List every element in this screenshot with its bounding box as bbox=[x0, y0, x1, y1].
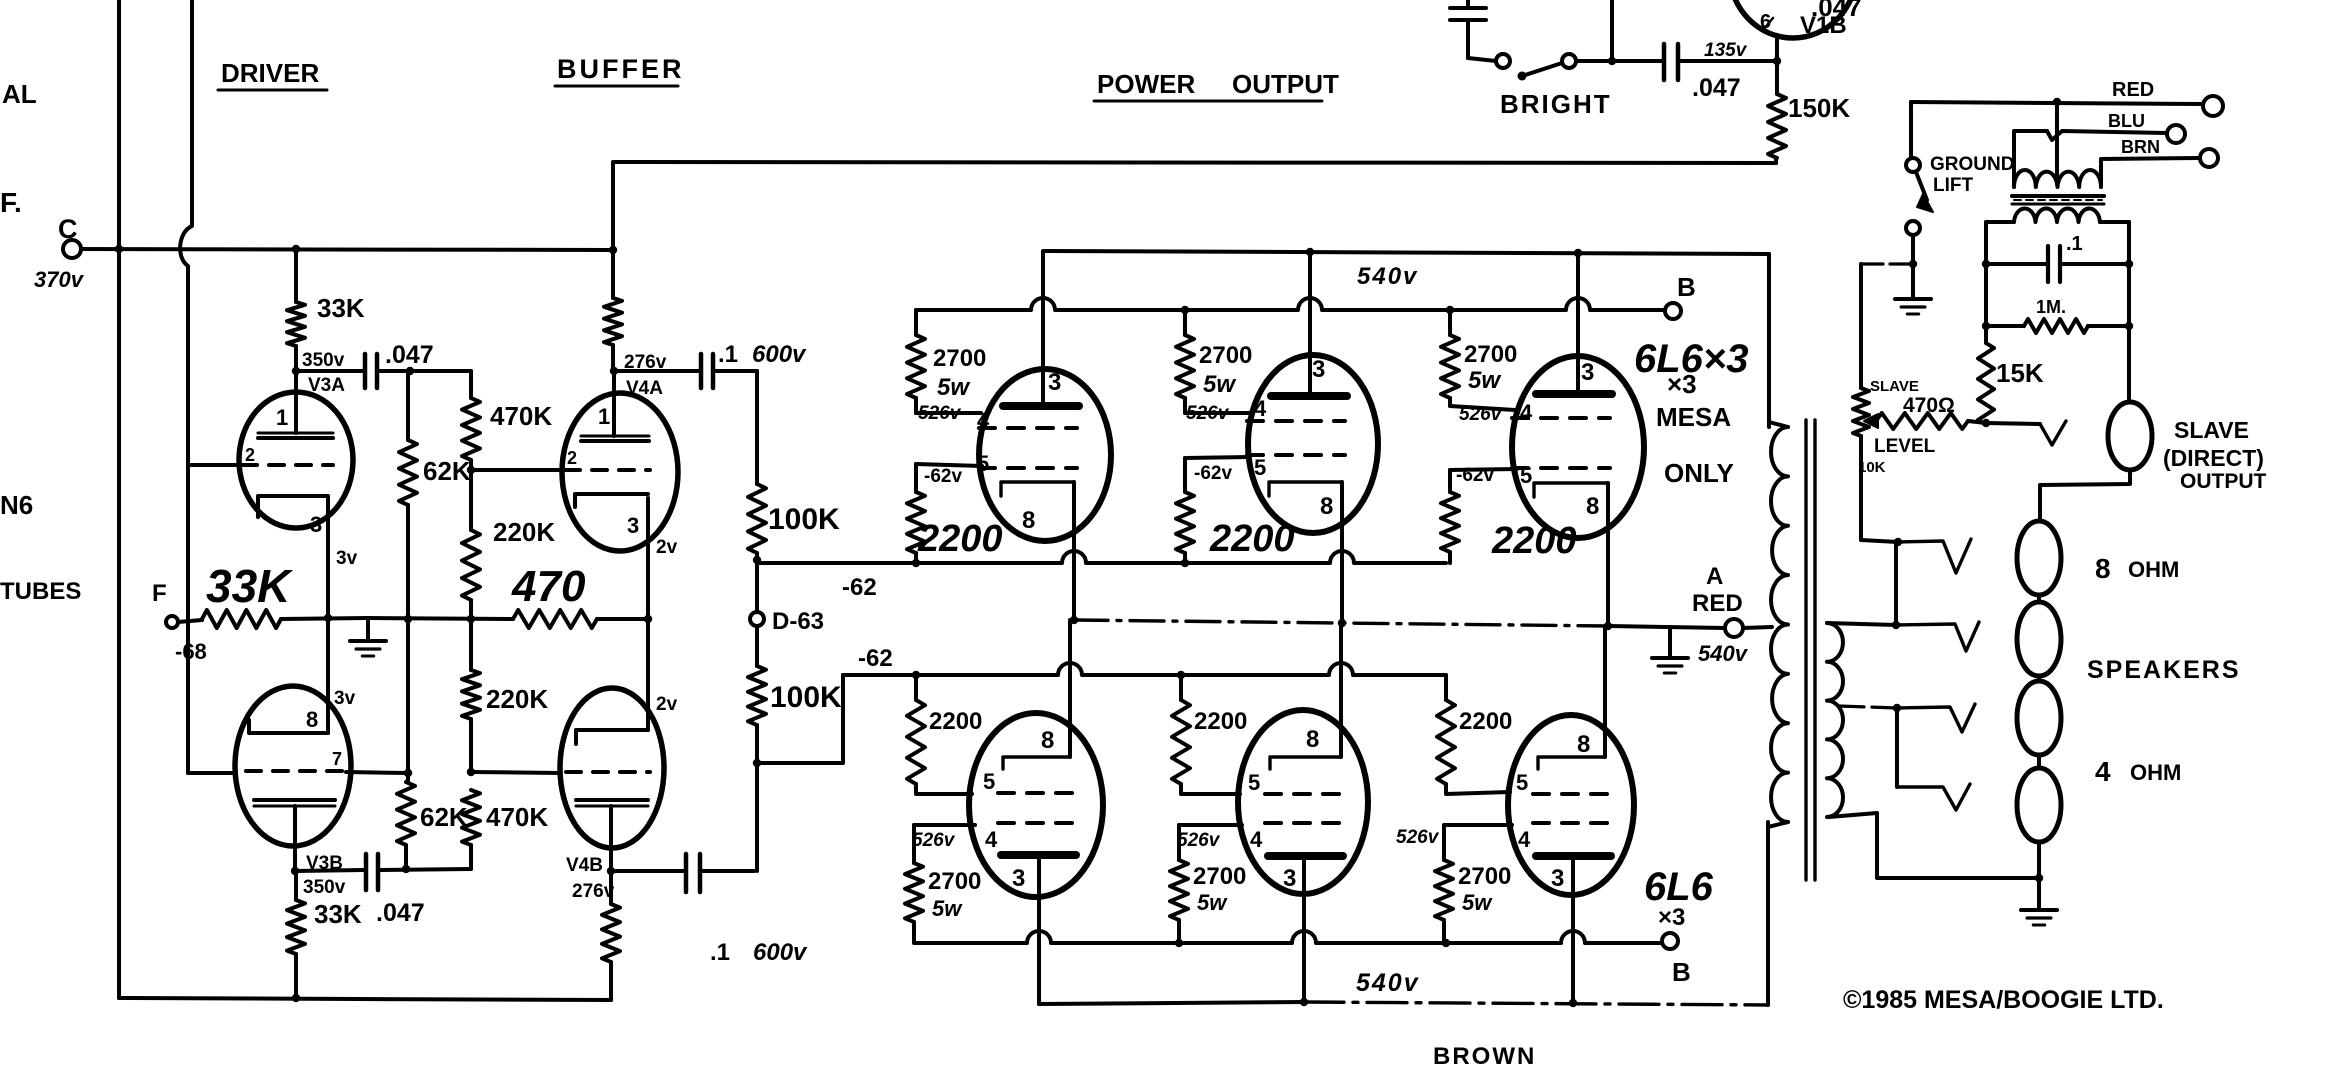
wire -62 rail upper bbox=[757, 551, 1446, 563]
svg-text:2v: 2v bbox=[656, 694, 678, 715]
resistor 2200 bot no3 bbox=[1444, 675, 1448, 700]
resistor 470 slave level bbox=[1876, 413, 1968, 429]
svg-text:B: B bbox=[1672, 957, 1691, 987]
svg-text:540v: 540v bbox=[1356, 969, 1420, 997]
wire secondary 4ohm tap bbox=[1838, 706, 1897, 708]
svg-text:C: C bbox=[58, 214, 78, 244]
pot 10K body bbox=[1853, 388, 1869, 436]
wire V3B grid to column bbox=[346, 772, 408, 773]
wire 370v rail bbox=[81, 249, 613, 250]
svg-text:.047: .047 bbox=[385, 341, 434, 369]
svg-text:BRN: BRN bbox=[2121, 137, 2160, 157]
resistor 2200 bot no1 bbox=[914, 675, 918, 700]
svg-text:BRIGHT: BRIGHT bbox=[1500, 89, 1612, 119]
junction dot bottom rail bbox=[1300, 998, 1308, 1006]
svg-text:F.: F. bbox=[0, 187, 22, 218]
wire top rail y162 bbox=[615, 162, 1776, 163]
svg-text:.1: .1 bbox=[718, 341, 738, 368]
jack bushing ellipse 3 bbox=[2017, 681, 2061, 755]
svg-text:5w: 5w bbox=[1462, 890, 1493, 915]
resistor 100K upper bbox=[748, 484, 766, 553]
junction dots 370v rail bbox=[115, 245, 123, 253]
wire jack chain upper bbox=[1894, 542, 1898, 625]
svg-text:2700: 2700 bbox=[1464, 341, 1517, 368]
resistor 2700 bot no2 bbox=[1170, 860, 1188, 920]
wire 100K column to V4B cap bbox=[755, 763, 759, 871]
OT secondary winding bbox=[1827, 623, 1843, 817]
svg-text:10K: 10K bbox=[1858, 459, 1886, 476]
svg-text:.1: .1 bbox=[710, 939, 730, 966]
jack tip V3 bbox=[1897, 704, 1975, 732]
svg-text:526v: 526v bbox=[1459, 404, 1503, 425]
svg-text:5w: 5w bbox=[1197, 890, 1228, 915]
capacitor .047 driver out bbox=[363, 354, 368, 388]
resistor 2200 top no3 bbox=[1448, 470, 1452, 492]
wire filter left vertical bbox=[1984, 222, 1988, 343]
svg-text:4: 4 bbox=[977, 408, 990, 433]
wire 540v top rail bbox=[1045, 251, 1769, 427]
wire V3B grid stub bbox=[188, 771, 236, 775]
ground lift switch bbox=[1906, 158, 1920, 172]
jack bushing ellipse 4 bbox=[2017, 768, 2061, 842]
wire BLU with hop bbox=[2047, 131, 2167, 140]
resistor 470K upper bbox=[410, 371, 471, 398]
jack tip slave bbox=[1986, 421, 2066, 445]
wire V4A plate drop bbox=[611, 162, 615, 251]
resistor 150K bbox=[1775, 61, 1779, 94]
resistor 2700 bot no1 bbox=[905, 863, 923, 922]
svg-text:5w: 5w bbox=[1468, 367, 1501, 394]
svg-text:3: 3 bbox=[1048, 369, 1061, 396]
wire plate drop tube2 bbox=[1308, 252, 1312, 392]
wire RED rail bbox=[1911, 102, 2202, 104]
wire pot bottom out bbox=[1861, 540, 1898, 542]
svg-text:540v: 540v bbox=[1698, 641, 1749, 666]
wire ground lift to gnd bbox=[1911, 235, 1915, 297]
resistor V4A plate bbox=[611, 251, 615, 298]
svg-text:5: 5 bbox=[1254, 455, 1266, 480]
OT primary top lead bbox=[1767, 254, 1771, 422]
jack tip V2 bbox=[1896, 622, 1979, 651]
slave jack bushing bbox=[2108, 402, 2152, 470]
svg-text:LIFT: LIFT bbox=[1933, 175, 1973, 196]
wire cathode drop tube1 bbox=[1072, 482, 1076, 620]
svg-text:3v: 3v bbox=[336, 548, 358, 569]
svg-text:3v: 3v bbox=[334, 688, 356, 709]
svg-text:(DIRECT): (DIRECT) bbox=[2163, 445, 2264, 471]
svg-text:100K: 100K bbox=[770, 681, 842, 714]
svg-text:526v: 526v bbox=[1186, 403, 1230, 424]
svg-text:470K: 470K bbox=[490, 401, 552, 431]
junction dot bottom wire bbox=[292, 994, 300, 1002]
jack tip V4 bbox=[1897, 784, 1970, 810]
svg-text:BLU: BLU bbox=[2108, 111, 2145, 131]
svg-text:4: 4 bbox=[985, 827, 998, 852]
tube V3B bbox=[235, 686, 351, 846]
svg-text:2200: 2200 bbox=[1459, 708, 1512, 735]
svg-text:350v: 350v bbox=[303, 877, 346, 898]
svg-text:-68: -68 bbox=[175, 639, 207, 664]
wire grid feed tube3 bbox=[1450, 469, 1517, 470]
svg-text:526v: 526v bbox=[1396, 827, 1440, 848]
svg-text:33K: 33K bbox=[317, 293, 365, 323]
svg-text:2v: 2v bbox=[656, 537, 678, 558]
svg-text:B: B bbox=[1677, 272, 1696, 302]
node B terminal top bbox=[1665, 303, 1681, 319]
svg-text:6L6: 6L6 bbox=[1644, 865, 1714, 909]
svg-text:.047: .047 bbox=[376, 899, 425, 927]
svg-text:-62: -62 bbox=[842, 574, 877, 601]
junction dot V4B plate node bbox=[607, 867, 615, 875]
svg-text:4: 4 bbox=[1520, 400, 1533, 425]
tube V1B partial bbox=[1729, 0, 1857, 38]
wire jack links bbox=[2037, 595, 2041, 602]
svg-text:5: 5 bbox=[1520, 463, 1532, 488]
wire center rail solid bbox=[1609, 626, 1725, 628]
V3A plate bar bbox=[258, 436, 333, 440]
svg-text:RED: RED bbox=[1692, 590, 1743, 617]
svg-text:2200: 2200 bbox=[1194, 708, 1247, 735]
V4A cathode bracket bbox=[575, 494, 648, 507]
capacitor .1 600v upper bbox=[614, 369, 699, 373]
svg-text:OUTPUT: OUTPUT bbox=[2180, 470, 2267, 493]
LT primary winding bbox=[2014, 170, 2101, 187]
wire lift branch to pot bbox=[1861, 262, 1913, 265]
tube 6L6 top no1 bbox=[979, 369, 1111, 541]
resistor 33K driver plate bbox=[294, 249, 298, 302]
svg-text:135v: 135v bbox=[1704, 40, 1748, 61]
svg-text:©1985 MESA/BOOGIE LTD.: ©1985 MESA/BOOGIE LTD. bbox=[1843, 986, 2164, 1014]
svg-text:2700: 2700 bbox=[1199, 342, 1252, 369]
V4A grid dashes bbox=[565, 468, 650, 472]
svg-text:4: 4 bbox=[1250, 827, 1263, 852]
svg-text:540v: 540v bbox=[1357, 263, 1418, 290]
svg-text:2: 2 bbox=[245, 445, 255, 465]
svg-text:SPEAKERS: SPEAKERS bbox=[2087, 656, 2241, 684]
junction dot -62 upper bbox=[753, 556, 761, 564]
svg-text:2700: 2700 bbox=[1458, 863, 1511, 890]
wire jack chain lower bbox=[1895, 708, 1899, 787]
V3B grid dashes bbox=[246, 769, 346, 773]
svg-text:TUBES: TUBES bbox=[0, 578, 81, 605]
tube V4B bbox=[560, 688, 664, 848]
wire filter right vertical bbox=[2127, 222, 2131, 402]
capacitor .1 filter bbox=[1986, 262, 2046, 266]
svg-text:5: 5 bbox=[1516, 770, 1528, 795]
capacitor .047 lower bbox=[295, 870, 364, 871]
tube 6L6 top no2 bbox=[1248, 355, 1378, 533]
LT primary right lead bbox=[2101, 158, 2200, 187]
resistor 1M filter bbox=[1986, 324, 2024, 328]
OT primary winding bbox=[1771, 427, 1788, 822]
svg-text:1: 1 bbox=[598, 404, 610, 429]
wire V1B plate lead bbox=[1775, 35, 1779, 61]
tube 6L6 top no3 bbox=[1512, 356, 1644, 538]
wire pot top lead bbox=[1859, 264, 1863, 388]
wire second vertical with hop over 370v rail bbox=[180, 0, 192, 773]
svg-text:F: F bbox=[152, 580, 167, 607]
resistor 2700 bot no3 bbox=[1435, 860, 1453, 920]
svg-text:5w: 5w bbox=[1203, 371, 1236, 398]
wire screen rail bottom bbox=[914, 931, 1661, 943]
svg-text:-62v: -62v bbox=[1194, 463, 1232, 484]
svg-text:3: 3 bbox=[627, 513, 639, 538]
wire V4B grid feed bbox=[471, 772, 560, 773]
OT core bbox=[1804, 420, 1807, 880]
resistor 33K feedback bbox=[178, 620, 202, 622]
svg-text:8: 8 bbox=[306, 707, 318, 732]
wire secondary top out bbox=[1827, 623, 1896, 625]
resistor 15K bbox=[1978, 343, 1994, 425]
wire jack top feed bbox=[2040, 471, 2130, 521]
svg-text:2700: 2700 bbox=[933, 345, 986, 372]
wire ground rail bbox=[368, 618, 513, 619]
svg-text:8: 8 bbox=[1320, 493, 1333, 520]
resistor 100K lower bbox=[755, 626, 759, 666]
svg-text:3: 3 bbox=[1312, 356, 1325, 383]
node BLU terminal bbox=[2167, 125, 2185, 143]
wire wiper to slave jack bbox=[1986, 423, 2040, 424]
wire left border vertical bbox=[117, 0, 121, 998]
V3A cathode bracket bbox=[258, 496, 328, 517]
LT center tap bbox=[2055, 102, 2059, 184]
ground symbol center bbox=[1652, 656, 1688, 660]
svg-text:×3: ×3 bbox=[1667, 369, 1697, 399]
wire 100K column top bbox=[715, 371, 757, 484]
tube 6L6 bot no1 bbox=[969, 713, 1103, 897]
wire 540v bottom dashdot bbox=[1304, 1002, 1768, 1005]
resistor 2200 top no2 bbox=[1183, 458, 1187, 492]
svg-text:BROWN: BROWN bbox=[1433, 1043, 1536, 1070]
junction dot 150K top bbox=[1773, 57, 1781, 65]
wire V4 cathode vertical bbox=[646, 498, 650, 730]
wire cathode drop tube3 bbox=[1606, 483, 1610, 626]
V3B cathode bracket bbox=[249, 720, 328, 733]
svg-text:8: 8 bbox=[1586, 493, 1599, 520]
wire plate drop bot2 bbox=[1302, 856, 1306, 1002]
svg-text:3: 3 bbox=[1551, 865, 1564, 892]
svg-text:62K: 62K bbox=[423, 456, 471, 486]
svg-text:.047: .047 bbox=[1692, 74, 1741, 102]
V4B grid dashes bbox=[566, 770, 650, 774]
wire screen feed bot no2 bbox=[1179, 823, 1242, 827]
capacitor .1 600v lower bbox=[611, 869, 684, 873]
svg-text:3: 3 bbox=[1283, 865, 1296, 892]
svg-text:BUFFER: BUFFER bbox=[557, 54, 685, 84]
wire ground lift drop bbox=[1909, 102, 1913, 158]
pot wiper arrow bbox=[1866, 419, 1876, 423]
svg-text:100K: 100K bbox=[768, 503, 840, 536]
svg-text:OHM: OHM bbox=[2128, 557, 2179, 582]
svg-text:5: 5 bbox=[1248, 770, 1260, 795]
jack tip V1 bbox=[1898, 539, 1971, 573]
wire V3A grid stub bbox=[188, 463, 240, 467]
svg-text:526v: 526v bbox=[918, 403, 962, 424]
resistor 2700 5w no1 bbox=[914, 310, 918, 335]
resistor 220K upper bbox=[469, 470, 473, 530]
LT primary left lead bbox=[2014, 131, 2047, 187]
svg-text:LEVEL: LEVEL bbox=[1874, 436, 1936, 457]
svg-text:GROUND: GROUND bbox=[1930, 154, 2014, 175]
bright switch bbox=[1496, 54, 1510, 68]
resistor 2700 5w no3 bbox=[1448, 310, 1452, 335]
wire plate drop bot3 bbox=[1571, 856, 1575, 1003]
V4A plate bar bbox=[581, 439, 649, 443]
svg-text:-62: -62 bbox=[858, 645, 893, 672]
svg-text:5w: 5w bbox=[937, 374, 970, 401]
svg-text:4: 4 bbox=[1518, 827, 1531, 852]
svg-text:A: A bbox=[1706, 563, 1723, 590]
node RED terminal bbox=[2203, 96, 2223, 116]
LT secondary winding bbox=[2014, 208, 2100, 222]
svg-text:470Ω: 470Ω bbox=[1903, 394, 1955, 417]
svg-text:600v: 600v bbox=[753, 939, 808, 966]
wire screen rail top bbox=[916, 298, 1664, 310]
node D-63 terminal bbox=[750, 612, 764, 626]
svg-text:ONLY: ONLY bbox=[1664, 458, 1734, 488]
svg-text:526v: 526v bbox=[1177, 830, 1221, 851]
resistor 470 cathode bbox=[513, 610, 597, 628]
svg-text:3: 3 bbox=[1012, 865, 1025, 892]
svg-text:15K: 15K bbox=[1996, 358, 2044, 388]
svg-text:SLAVE: SLAVE bbox=[1870, 378, 1919, 395]
node A RED terminal bbox=[1725, 619, 1743, 637]
wire grid feed tube1 bbox=[916, 464, 982, 466]
wire A to transformer bbox=[1743, 627, 1772, 628]
wire plate drop tube1 bbox=[1041, 251, 1045, 406]
wire cathode rise bot3 bbox=[1603, 626, 1607, 757]
wire cap out lower bbox=[378, 869, 471, 870]
svg-text:3: 3 bbox=[310, 512, 322, 537]
junction dot 100K bottom bbox=[753, 759, 761, 767]
svg-text:8: 8 bbox=[1022, 507, 1035, 534]
svg-text:1M.: 1M. bbox=[2036, 297, 2066, 317]
junction dots center rail bbox=[1070, 616, 1078, 624]
svg-text:V4B: V4B bbox=[566, 855, 603, 876]
wire V4A grid feed bbox=[471, 468, 563, 472]
V4B cathode bracket bbox=[576, 730, 648, 744]
resistor 2200 bot no2 bbox=[1179, 675, 1183, 700]
jack bushing ellipse 2 bbox=[2017, 602, 2061, 676]
svg-text:8: 8 bbox=[2095, 553, 2111, 584]
wire 540v bottom solid bbox=[1039, 1002, 1304, 1004]
resistor V4B plate load bbox=[609, 871, 613, 904]
wire cap to 470K corner bbox=[410, 369, 471, 373]
tube V4A bbox=[562, 393, 678, 551]
svg-text:SLAVE: SLAVE bbox=[2174, 417, 2249, 443]
svg-text:RED: RED bbox=[2112, 79, 2154, 101]
node B terminal bottom bbox=[1662, 933, 1678, 949]
svg-text:-62v: -62v bbox=[924, 466, 962, 487]
resistor 2700 5w no2 bbox=[1183, 310, 1187, 335]
svg-text:2200: 2200 bbox=[917, 518, 1003, 560]
V3B plate bar bbox=[254, 798, 335, 802]
svg-text:33K: 33K bbox=[206, 560, 293, 612]
svg-text:8: 8 bbox=[1577, 731, 1590, 758]
svg-text:DRIVER: DRIVER bbox=[221, 58, 319, 88]
svg-text:×3: ×3 bbox=[1658, 904, 1685, 931]
wire screen feed bot no3 bbox=[1444, 823, 1512, 827]
resistor 220K lower bbox=[469, 619, 473, 670]
svg-text:OHM: OHM bbox=[2130, 760, 2181, 785]
svg-text:526v: 526v bbox=[912, 830, 956, 851]
svg-text:.1: .1 bbox=[2066, 233, 2083, 255]
wire -62 staircase bbox=[757, 675, 843, 763]
svg-text:600v: 600v bbox=[752, 341, 807, 368]
resistor 2200 top no1 bbox=[914, 464, 918, 492]
svg-text:2200: 2200 bbox=[929, 708, 982, 735]
wire plate drop tube3 bbox=[1576, 253, 1580, 394]
resistor 62K lower bbox=[397, 782, 415, 845]
wire volume drop bbox=[1610, 0, 1614, 61]
wire V3A plate node bbox=[296, 369, 363, 373]
wire screen feed bot no1 bbox=[914, 823, 975, 827]
wire cathode rise bot2 bbox=[1339, 624, 1343, 757]
wire bright to cap bbox=[1576, 59, 1662, 63]
wire plate drop bot1 bbox=[1037, 855, 1041, 1004]
svg-text:POWER: POWER bbox=[1097, 69, 1195, 99]
svg-text:2700: 2700 bbox=[928, 868, 981, 895]
svg-text:350v: 350v bbox=[302, 350, 345, 371]
wire transformer primary bottom lead bbox=[1766, 822, 1770, 1005]
wire secondary2 right lead bbox=[2100, 220, 2129, 224]
V4B plate bar bbox=[576, 798, 648, 802]
svg-text:470K: 470K bbox=[486, 802, 548, 832]
wire to bright switch bbox=[1468, 58, 1496, 61]
svg-text:5: 5 bbox=[983, 769, 995, 794]
ground symbol driver bbox=[366, 619, 370, 640]
svg-text:8: 8 bbox=[1306, 726, 1319, 753]
svg-text:-62v: -62v bbox=[1456, 465, 1494, 486]
svg-text:2700: 2700 bbox=[1193, 863, 1246, 890]
tube 6L6 bot no3 bbox=[1508, 715, 1634, 895]
capacitor top-left vertical bbox=[1450, 6, 1486, 10]
svg-text:5w: 5w bbox=[932, 896, 963, 921]
wire cathode rise bot1 bbox=[1068, 620, 1072, 757]
junction dots ground rail bbox=[324, 614, 332, 622]
jack bushing ellipse 1 bbox=[2017, 521, 2061, 595]
svg-text:150K: 150K bbox=[1788, 93, 1850, 123]
wire center rail dashdot bbox=[1074, 620, 1609, 626]
wire 62K column to V3B grid bbox=[406, 619, 410, 782]
node C terminal bbox=[63, 240, 81, 258]
wire speaker ground drop bbox=[2037, 878, 2041, 908]
wire ground drop center bbox=[1668, 627, 1672, 656]
wire bottom return bbox=[119, 998, 611, 1000]
ground symbol speakers bbox=[2021, 908, 2057, 912]
wire secondary2 left lead bbox=[1986, 220, 2014, 224]
OT primary bottom jog bbox=[1768, 822, 1788, 827]
svg-text:7: 7 bbox=[332, 749, 342, 769]
wire grid feed tube2 bbox=[1185, 457, 1250, 458]
resistor 470K lower bbox=[462, 790, 480, 845]
resistor 33K V3B cathode-bottom bbox=[294, 871, 298, 900]
svg-text:2200: 2200 bbox=[1491, 520, 1577, 562]
V3A grid dashes bbox=[242, 463, 333, 467]
svg-text:4: 4 bbox=[1254, 396, 1267, 421]
junction dot V3B plate node bbox=[291, 867, 299, 875]
svg-text:4: 4 bbox=[2095, 756, 2111, 787]
svg-text:MESA: MESA bbox=[1656, 402, 1731, 432]
svg-text:2: 2 bbox=[567, 448, 577, 468]
wire -62 rail lower bbox=[843, 663, 1446, 675]
resistor 62K upper bbox=[406, 371, 410, 440]
svg-text:5: 5 bbox=[977, 451, 989, 476]
capacitor .047 bright bbox=[1662, 44, 1667, 80]
svg-text:N6: N6 bbox=[0, 490, 33, 520]
svg-text:8: 8 bbox=[1041, 727, 1054, 754]
svg-text:370v: 370v bbox=[34, 267, 85, 292]
